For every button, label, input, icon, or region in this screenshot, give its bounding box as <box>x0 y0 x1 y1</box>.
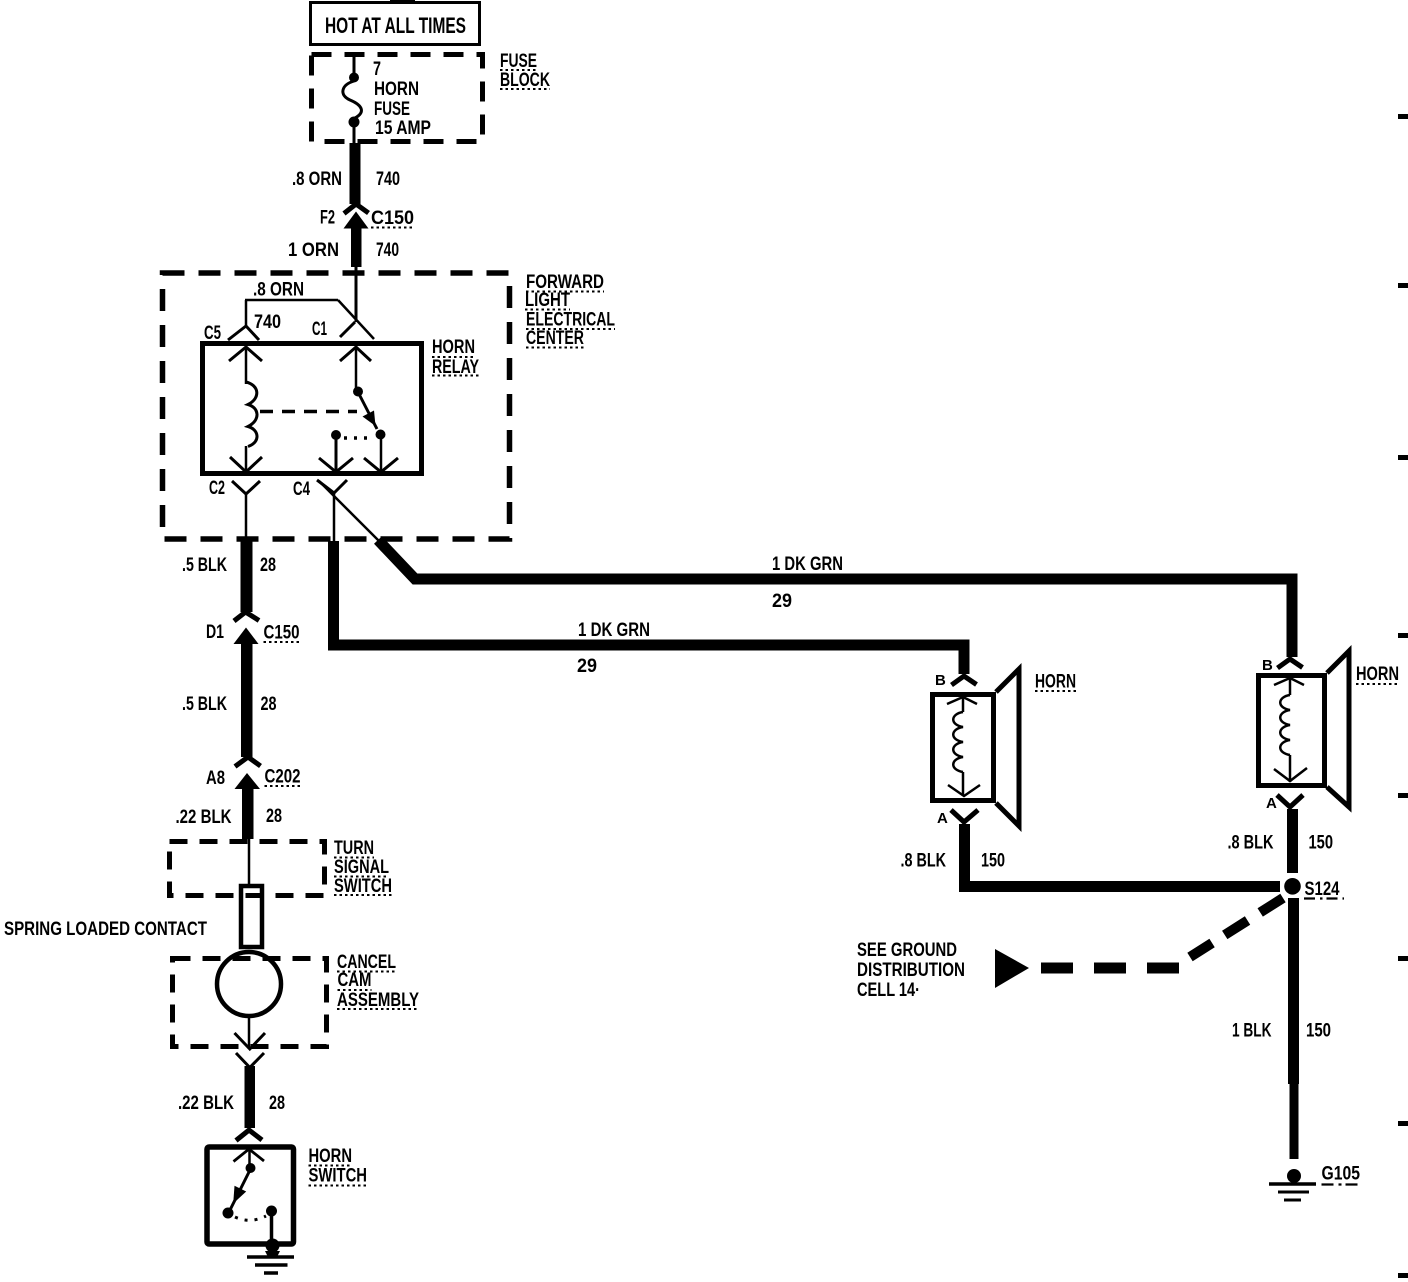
chevrons into horn switch <box>234 1130 265 1165</box>
relay bottom pin C2 chevrons <box>209 457 262 541</box>
svg-text:A8: A8 <box>206 768 225 789</box>
turn signal switch dashed box <box>170 842 325 896</box>
svg-text:BLOCK: BLOCK <box>500 70 550 91</box>
svg-text:740: 740 <box>254 312 281 333</box>
svg-text:SPRING LOADED CONTACT: SPRING LOADED CONTACT <box>4 919 207 940</box>
label HORN RELAY <box>432 337 479 378</box>
right horn coil <box>1274 678 1307 782</box>
svg-text:29: 29 <box>577 656 597 677</box>
wire 1 DK GRN 29 lower run to left horn <box>334 541 965 677</box>
wire thin into C1 <box>355 267 358 322</box>
fuse 7 HORN FUSE 15 AMP <box>343 55 431 143</box>
left horn box <box>933 695 994 801</box>
wire diagonal C4 to dk grn run <box>319 481 379 541</box>
svg-text:C150: C150 <box>264 623 300 644</box>
pin C5 terminal chevrons <box>204 323 262 384</box>
wire into spring contact <box>248 839 251 884</box>
left horn B terminal <box>935 672 977 689</box>
label FORWARD LIGHT ELECTRICAL CENTER <box>525 272 615 349</box>
svg-text:LIGHT: LIGHT <box>525 290 570 311</box>
pin C1 terminal chevrons <box>312 319 371 361</box>
svg-text:ASSEMBLY: ASSEMBLY <box>337 990 419 1011</box>
left horn coil <box>947 697 980 796</box>
svg-text:150: 150 <box>1309 833 1334 854</box>
svg-text:B: B <box>935 672 946 689</box>
svg-text:C202: C202 <box>265 767 301 788</box>
svg-text:A: A <box>1266 795 1277 812</box>
horn switch box <box>207 1147 294 1244</box>
svg-text:S124: S124 <box>1305 879 1340 900</box>
svg-text:CELL 14·: CELL 14· <box>857 980 920 1001</box>
connector F2 C150 <box>320 204 414 267</box>
wire .8 BLK 150 right horn to S124 <box>1228 809 1334 873</box>
left horn flare <box>996 669 1019 826</box>
forward light electrical center dashed box <box>163 273 510 539</box>
label HORN right <box>1356 664 1399 685</box>
wire .5 BLK 28 C2 to D1 <box>182 541 276 612</box>
node HOT AT ALL TIMES box <box>311 3 480 45</box>
wire below cam with chevrons <box>235 1016 266 1068</box>
svg-text:28: 28 <box>269 1093 285 1114</box>
svg-text:HORN: HORN <box>432 337 475 358</box>
horn relay box <box>203 344 422 474</box>
svg-text:740: 740 <box>376 169 400 190</box>
label CANCEL CAM ASSEMBLY <box>337 952 419 1011</box>
svg-text:.8 BLK: .8 BLK <box>901 851 947 872</box>
svg-text:.5 BLK: .5 BLK <box>182 694 227 715</box>
right horn A terminal <box>1266 795 1303 812</box>
svg-text:7: 7 <box>373 59 381 80</box>
wire 1 BLK 150 S124 to G105 <box>1232 898 1331 1159</box>
scan artifact bar top <box>390 0 415 4</box>
label FUSE BLOCK <box>500 51 550 91</box>
svg-text:HOT AT ALL TIMES: HOT AT ALL TIMES <box>325 13 466 38</box>
svg-text:FUSE: FUSE <box>374 99 410 120</box>
dashed pointer to ground distribution <box>995 898 1283 988</box>
svg-text:SWITCH: SWITCH <box>309 1166 368 1187</box>
svg-text:CENTER: CENTER <box>526 328 584 349</box>
svg-text:150: 150 <box>981 851 1005 872</box>
label HORN left <box>1035 672 1076 693</box>
right horn flare <box>1327 651 1349 807</box>
right horn box <box>1259 676 1325 786</box>
page edge tick marks <box>1398 114 1408 1278</box>
svg-text:.8 BLK: .8 BLK <box>1228 833 1274 854</box>
svg-text:C2: C2 <box>209 478 225 499</box>
svg-text:28: 28 <box>260 555 276 576</box>
wire .8 BLK 150 left horn to S124 <box>901 824 1281 887</box>
svg-text:1 BLK: 1 BLK <box>1232 1021 1272 1042</box>
relay switch arm <box>331 347 386 440</box>
svg-text:TURN: TURN <box>334 838 374 859</box>
svg-text:.22 BLK: .22 BLK <box>176 807 232 828</box>
svg-text:HORN: HORN <box>1035 672 1076 693</box>
svg-text:SIGNAL: SIGNAL <box>334 857 389 878</box>
left horn A terminal <box>937 810 978 827</box>
svg-text:SWITCH: SWITCH <box>334 876 392 897</box>
horn switch contacts <box>223 1163 278 1243</box>
wire .8 ORN 740 fuse to F2 <box>350 143 361 204</box>
svg-text:C5: C5 <box>204 323 221 344</box>
connector A8 C202 <box>206 757 301 839</box>
svg-text:.5 BLK: .5 BLK <box>182 555 227 576</box>
svg-text:CAM: CAM <box>338 970 372 991</box>
svg-text:C1: C1 <box>312 319 327 340</box>
relay coil <box>246 382 257 447</box>
svg-text:A: A <box>937 810 948 827</box>
relay bottom pin C4 chevrons <box>293 439 353 541</box>
cancel cam circle <box>217 952 281 1016</box>
svg-text:G105: G105 <box>1322 1164 1361 1185</box>
svg-text:C4: C4 <box>293 479 310 500</box>
relay bottom pin contact chevron <box>364 439 398 472</box>
svg-text:D1: D1 <box>206 622 224 643</box>
splice S124 <box>1284 878 1344 900</box>
svg-text:HORN: HORN <box>309 1146 353 1167</box>
svg-text:1 DK GRN: 1 DK GRN <box>578 620 650 641</box>
wire 1 DK GRN 29 upper run to right horn <box>378 540 1292 657</box>
ground below horn switch <box>247 1239 294 1274</box>
ground G105 <box>1269 1164 1361 1201</box>
note SEE GROUND DISTRIBUTION CELL 14 <box>857 940 965 1001</box>
svg-text:150: 150 <box>1306 1021 1331 1042</box>
svg-text:15 AMP: 15 AMP <box>375 118 431 139</box>
svg-text:1 DK GRN: 1 DK GRN <box>772 554 843 575</box>
label TURN SIGNAL SWITCH <box>334 838 392 897</box>
svg-text:.8 ORN: .8 ORN <box>253 280 304 301</box>
right horn B terminal <box>1262 657 1303 674</box>
svg-text:SEE GROUND: SEE GROUND <box>857 940 957 961</box>
svg-text:.8 ORN: .8 ORN <box>292 169 342 190</box>
connector D1 C150 <box>206 612 300 757</box>
cancel cam assembly dashed box <box>173 959 327 1047</box>
svg-text:C150: C150 <box>371 208 414 229</box>
svg-text:DISTRIBUTION: DISTRIBUTION <box>857 960 965 981</box>
svg-text:.22 BLK: .22 BLK <box>178 1093 234 1114</box>
svg-text:FUSE: FUSE <box>500 51 537 72</box>
label HORN SWITCH <box>309 1146 368 1187</box>
svg-text:28: 28 <box>266 806 282 827</box>
fuse block dashed box <box>312 55 483 142</box>
svg-text:F2: F2 <box>320 208 335 229</box>
svg-text:HORN: HORN <box>374 79 419 100</box>
svg-text:1 ORN: 1 ORN <box>288 240 339 261</box>
wire .22 BLK 28 to horn switch <box>178 1066 285 1128</box>
svg-text:28: 28 <box>261 694 277 715</box>
spring loaded contact <box>4 886 262 947</box>
svg-text:B: B <box>1262 657 1273 674</box>
svg-text:740: 740 <box>376 240 399 261</box>
relay mechanical link dashed <box>260 410 357 414</box>
svg-text:29: 29 <box>772 591 792 612</box>
wire .8 ORN 740 internal jumper <box>245 280 374 340</box>
svg-text:HORN: HORN <box>1356 664 1399 685</box>
